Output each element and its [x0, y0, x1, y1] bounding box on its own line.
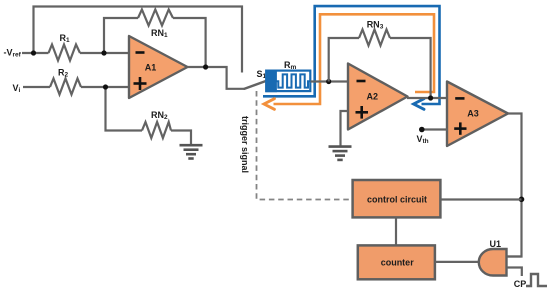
A2 plus sign — [356, 106, 369, 119]
wire: -Vref top loop to switch throw B — [34, 7, 243, 73]
svg-text:A1: A1 — [145, 63, 157, 73]
svg-text:trigger signal: trigger signal — [240, 116, 250, 173]
orange arrowhead — [264, 99, 274, 110]
A1 minus sign — [136, 51, 145, 54]
resistor RN1 — [138, 10, 173, 26]
blue arrowhead — [414, 99, 424, 110]
ground G1 — [180, 145, 203, 158]
feedback loop RN3 — [329, 38, 359, 82]
orange loop wire with arrow at memristor — [274, 14, 435, 104]
feedback loop RN1 — [104, 18, 138, 53]
wire: RN2 branch — [106, 87, 143, 131]
A3 minus sign — [455, 97, 464, 100]
switch S1 arm — [245, 81, 267, 89]
wire: Vi input row — [23, 86, 50, 88]
node: R2/RN2 junction — [103, 84, 108, 89]
A3 plus sign — [454, 122, 466, 134]
resistor R2 — [50, 79, 81, 95]
node: memristor/RN3 junction — [326, 79, 331, 84]
wire: A1 output to switch — [188, 67, 245, 89]
svg-text:U1: U1 — [490, 239, 502, 249]
node: Vth terminal — [419, 127, 425, 133]
wire: RN2 to ground — [171, 131, 191, 146]
wire: memristor to A2 inverting input — [311, 80, 350, 82]
wire: -Vref input row — [22, 52, 49, 54]
svg-text:counter: counter — [381, 258, 415, 268]
node: A3 output junction with control circuit — [519, 197, 525, 203]
wire: Vth to A3 non-inverting input — [422, 128, 448, 130]
resistor RN2 — [142, 122, 171, 138]
CP pulse symbol — [526, 274, 547, 286]
resistor R1 — [49, 45, 81, 61]
wire: A2 output to A3 inverting input — [407, 97, 448, 99]
wire: R1 to A1 inverting input — [80, 52, 130, 54]
op-amp A1 — [129, 36, 188, 98]
A1 plus sign — [134, 77, 147, 90]
counter box — [358, 245, 435, 279]
wire: A3 output down to AND gate — [507, 114, 522, 257]
control circuit box — [353, 180, 441, 217]
node: -Vref junction — [31, 50, 36, 55]
dashed trigger signal wire — [257, 91, 353, 200]
ground G2 — [329, 147, 352, 160]
node: A1 output — [203, 64, 208, 69]
wire: RN1 to A1 output — [173, 18, 206, 67]
memristor Rm — [266, 71, 310, 92]
AND gate U1 — [479, 249, 507, 276]
node: A2 output junction — [428, 95, 433, 100]
svg-text:A3: A3 — [467, 109, 479, 119]
wire: AND gate lower input to CP — [507, 268, 522, 277]
op-amp A3 — [447, 82, 508, 147]
wire: R2 to A1 non-inverting input — [81, 86, 130, 88]
wire: counter to AND gate output — [435, 261, 481, 263]
wire: RN3 to A2 output — [390, 38, 431, 98]
svg-text:A2: A2 — [367, 91, 379, 101]
wire: A2 non-inverting input to ground — [341, 111, 349, 146]
A2 minus sign — [357, 80, 366, 83]
wire: control circuit to counter — [395, 217, 397, 245]
blue loop wire with arrow at A2 output — [263, 6, 440, 104]
wire: control circuit to A3 output line — [440, 198, 521, 200]
node: R1/RN1 junction — [101, 50, 106, 55]
resistor RN3 — [359, 30, 390, 46]
wire: AND gate upper input — [507, 255, 522, 257]
svg-text:CP: CP — [514, 279, 527, 289]
svg-text:control circuit: control circuit — [367, 195, 427, 205]
op-amp A2 — [348, 64, 408, 130]
